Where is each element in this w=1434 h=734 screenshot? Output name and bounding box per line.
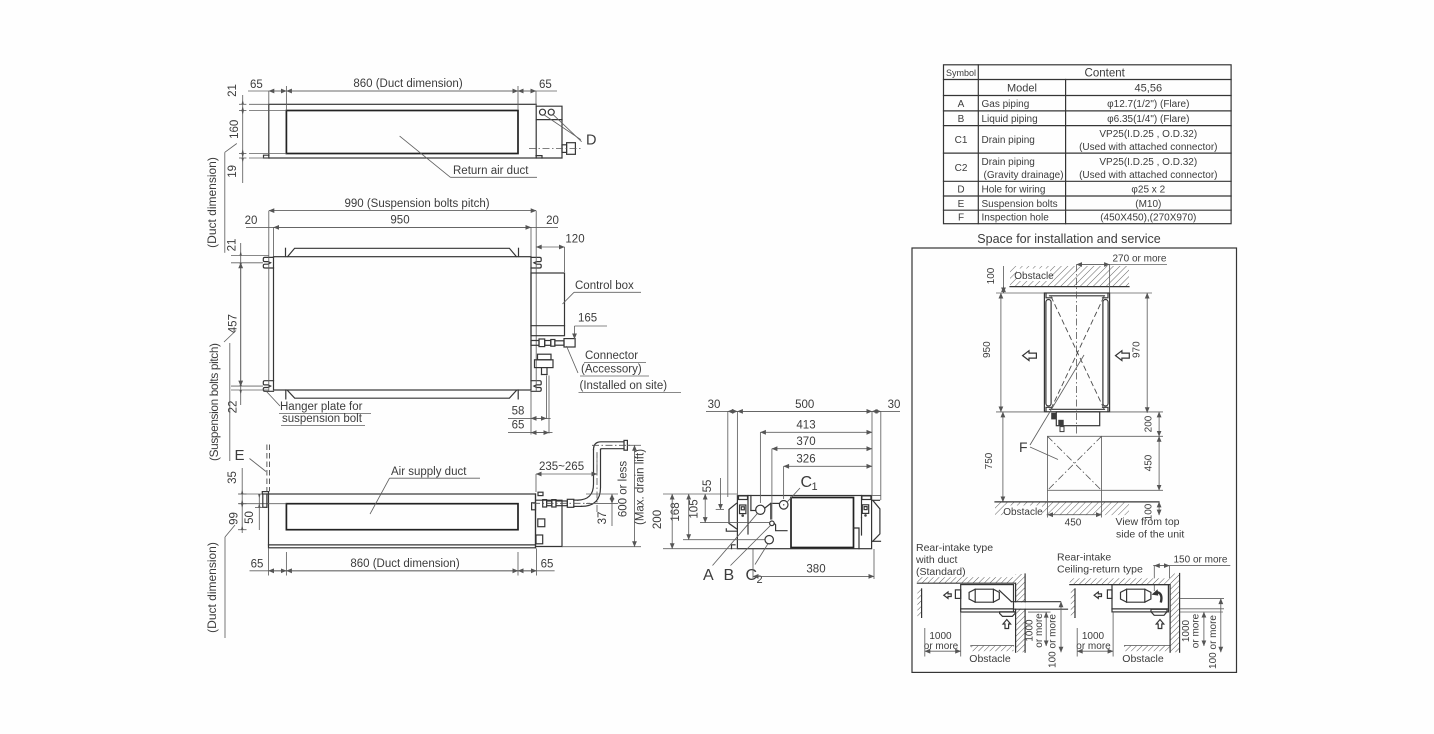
dim 270 or more [1077,264,1168,266]
svg-text:E: E [235,447,245,464]
top edge ext left [239,493,269,495]
duct hole through wall [1015,602,1026,608]
wall right mini [1170,574,1180,653]
svg-text:Suspension bolts: Suspension bolts [982,199,1058,210]
svg-text:side of the unit: side of the unit [1116,529,1184,541]
svg-text:30: 30 [708,399,721,411]
svg-text:500: 500 [795,399,814,411]
svg-text:Drain piping: Drain piping [982,157,1035,168]
control box [531,273,565,336]
svg-text:Model: Model [1007,83,1037,95]
unit box right mini [1112,585,1168,612]
corner hooks [1046,294,1052,298]
bottom inner lip line [269,544,536,546]
dim 450 right [1102,489,1164,491]
dims 58 / 65 bottom right [530,392,532,435]
svg-text:1: 1 [812,481,818,493]
duct top ext line [239,503,287,505]
svg-text:235~265: 235~265 [539,461,584,473]
svg-text:(M10): (M10) [1135,199,1161,210]
top edge ext left for dims [663,493,737,495]
fan box step bottom-right [854,528,860,549]
dim 750 left [996,501,1010,503]
svg-text:φ12.7(1/2") (Flare): φ12.7(1/2") (Flare) [1107,99,1189,110]
svg-text:65: 65 [541,559,554,571]
right bracket channel [861,496,863,518]
step below B [774,523,787,530]
right bracket plate [873,500,880,541]
svg-text:Inspection hole: Inspection hole [982,213,1050,224]
up arrow [1003,620,1011,629]
svg-text:or more: or more [1034,613,1045,648]
centerline through stub [529,147,581,149]
top obstacle hatch [1010,266,1129,287]
svg-text:65: 65 [539,79,552,91]
svg-text:990 (Suspension bolts pitch): 990 (Suspension bolts pitch) [344,198,489,210]
svg-text:VP25(I.D.25 , O.D.32): VP25(I.D.25 , O.D.32) [1099,157,1197,168]
foot right mini [1151,609,1167,615]
leader hanger plate [267,392,281,407]
svg-text:150 or more: 150 or more [1174,555,1228,566]
control box plan [1056,412,1099,426]
gas pipe A [756,505,765,514]
dim 950 [996,411,1044,413]
svg-text:B: B [724,567,735,584]
top flange line [288,248,517,256]
svg-text:Symbol: Symbol [946,68,976,78]
svg-text:457: 457 [228,314,240,333]
svg-text:200: 200 [652,510,664,529]
suspension bolt dashed [266,445,268,492]
ext 950 left [273,227,275,256]
svg-text:Space for installation and ser: Space for installation and service [977,232,1160,246]
air supply duct opening [286,504,518,530]
connector pipe assembly C1 [531,341,539,346]
svg-text:Hole for wiring: Hole for wiring [982,184,1046,195]
foot under unit [1000,612,1016,617]
svg-text:E: E [958,199,965,210]
svg-text:200: 200 [1144,415,1155,432]
return air duct opening [286,111,518,154]
duct lines through wall [1011,601,1060,603]
dim 600 or less [627,444,641,446]
ceiling hatch right mini [1070,578,1170,584]
svg-text:(Duct dimension): (Duct dimension) [205,157,219,248]
svg-text:or more: or more [1190,613,1201,648]
ticks for 21/160/19 [239,103,246,105]
dim 950 line [246,226,558,228]
svg-text:C: C [746,567,758,584]
svg-text:Obstacle: Obstacle [1003,507,1043,518]
hanger plate bottom-right [531,381,541,392]
svg-text:750: 750 [984,452,995,469]
discharge transition [999,590,1011,601]
right bolt square [862,505,868,514]
row lines [944,79,1232,81]
svg-text:Return air duct: Return air duct [453,165,529,177]
wall left mini [1016,574,1026,652]
svg-text:Air supply duct: Air supply duct [391,466,467,478]
panel border [912,248,1237,672]
dim 380 [752,549,754,579]
fan box [791,498,854,548]
left dims: 21 / 457 / 22 [231,255,269,257]
return curl [1156,592,1161,602]
ceiling hatch left mini [917,577,1025,583]
notch to C1 [765,503,771,508]
hanger plate top-left [263,257,273,268]
svg-text:58: 58 [512,406,525,418]
svg-text:(Installed on site): (Installed on site) [580,380,668,392]
ext verticals top [727,411,729,497]
right end box front [536,494,563,548]
leaders A B C2 C1 [713,513,758,565]
drain C1 [779,501,788,510]
svg-text:20: 20 [546,215,559,227]
bottom-left foot [732,545,736,549]
svg-text:65: 65 [512,420,525,432]
svg-text:950: 950 [982,341,993,358]
pipe centerline horizontal [533,502,590,504]
svg-text:Liquid piping: Liquid piping [982,114,1038,125]
svg-text:37: 37 [597,512,609,525]
svg-text:65: 65 [251,559,264,571]
svg-text:20: 20 [245,215,258,227]
hanger plate top-right [531,257,541,268]
intake flange right mini [1107,590,1112,599]
svg-text:860 (Duct dimension): 860 (Duct dimension) [353,78,462,90]
svg-text:Gas piping: Gas piping [982,99,1030,110]
svg-text:950: 950 [390,215,409,227]
unit body (front view) [269,494,536,548]
left wall strip [917,589,921,618]
svg-text:Rear-intake: Rear-intake [1057,552,1111,564]
hanger tab bottom-right (D box step) [536,156,542,158]
svg-text:65: 65 [250,79,263,91]
leader connector [567,346,579,373]
C2 drain assembly below [538,354,552,360]
svg-text:VP25(I.D.25 , O.D.32): VP25(I.D.25 , O.D.32) [1099,129,1197,140]
dim 165 [575,325,608,327]
svg-text:50: 50 [244,511,256,524]
svg-text:160: 160 [229,120,241,139]
left bracket channel [747,496,749,535]
riser top elbow [594,442,625,450]
svg-text:100 or more: 100 or more [1048,614,1059,668]
lower block front [536,535,543,544]
bottom flange line [288,391,517,399]
airflow arrow right [1116,351,1130,361]
unit body (top view) [269,104,536,158]
svg-text:45,56: 45,56 [1135,83,1163,95]
svg-text:A: A [958,99,965,110]
wiring hole circle 1 [540,109,546,115]
svg-text:380: 380 [806,564,825,576]
dim 860 top line [248,90,557,92]
svg-text:370: 370 [796,436,815,448]
svg-text:105: 105 [689,499,701,518]
svg-text:(Used with attached connector): (Used with attached connector) [1079,142,1217,153]
bottom dims 65 / 860 / 65 [268,549,270,576]
svg-text:413: 413 [796,420,815,432]
svg-text:2: 2 [757,574,763,586]
ext verticals for 860 dim [268,91,270,104]
svg-text:or more: or more [924,641,959,652]
pipe horizontal to elbow [574,499,578,501]
svg-text:Content: Content [1085,68,1126,80]
bottom obstacle left mini [971,645,1014,647]
unit body (plan view) [274,257,532,390]
drain pipe assembly [543,500,547,507]
svg-text:450: 450 [1065,518,1082,529]
arrowheads 21/22 mid view [240,251,242,395]
svg-text:C2: C2 [955,163,968,174]
svg-text:with duct: with duct [915,554,958,566]
dashed X in unit [1051,297,1104,409]
left arrow right mini [1094,592,1101,598]
small block on face [532,503,536,510]
svg-text:970: 970 [1132,341,1143,358]
svg-text:(Duct dimension): (Duct dimension) [205,542,219,633]
left ext lines [249,103,269,105]
svg-text:Hanger plate for: Hanger plate for [280,401,363,413]
dim 450 bottom [1047,490,1049,517]
dim 370 [772,448,872,450]
svg-text:A: A [703,567,714,584]
svg-text:(Max. drain lift): (Max. drain lift) [635,449,647,525]
svg-text:450: 450 [1144,454,1155,471]
svg-text:Control box: Control box [575,280,634,292]
hanger plate bottom-left [263,381,273,392]
svg-text:C: C [801,474,813,491]
svg-text:100: 100 [986,267,997,284]
hanger tab bottom-left [264,155,270,158]
bottom obstacle right mini [1125,645,1170,647]
D box right [536,106,562,158]
svg-text:Obstacle: Obstacle [969,653,1011,665]
riser end cap [624,440,627,450]
control box lid line [531,325,565,327]
connector stub right of D box [562,145,567,153]
svg-text:600 or less: 600 or less [618,461,630,518]
svg-text:326: 326 [796,454,815,466]
svg-text:View from top: View from top [1116,516,1180,528]
col divider 1 [977,65,979,224]
svg-text:21: 21 [227,239,239,252]
svg-text:Ceiling-return type: Ceiling-return type [1057,564,1143,576]
svg-text:φ25 x 2: φ25 x 2 [1131,184,1165,195]
leader 457 [224,331,236,343]
drain C2 [765,536,773,544]
svg-text:860 (Duct dimension): 860 (Duct dimension) [350,558,459,570]
left arrow [944,592,951,598]
left dims 35 / 99 / 50 [241,468,243,533]
svg-text:120: 120 [565,234,584,246]
left bolt square [740,505,746,514]
svg-text:Rear-intake type: Rear-intake type [916,542,993,554]
svg-text:or more: or more [1076,641,1111,652]
svg-text:suspension bolt: suspension bolt [282,413,363,425]
dim 100 bottom right [1158,502,1160,515]
unit body (side/end view) [737,496,871,549]
left wall strip right mini [1071,589,1075,618]
leader D line 2 [552,114,581,142]
svg-text:(450X450),(270X970): (450X450),(270X970) [1100,213,1196,224]
left hanger plate front [262,492,268,494]
dim 990 line [269,210,536,212]
bottom obstacle hatch [995,502,1129,515]
leader Return air duct [400,136,451,177]
bottom edge ext left [663,548,737,550]
dim line top 30/500/30 [706,410,900,412]
dim 326 [784,465,872,467]
left bracket plate [729,503,737,529]
svg-text:55: 55 [702,480,714,493]
top tab right [538,492,543,495]
unit rect plan [1044,293,1109,412]
intake flange [955,590,960,599]
svg-text:270 or more: 270 or more [1113,254,1167,265]
svg-text:(Suspension bolts pitch): (Suspension bolts pitch) [207,343,221,461]
side flange lines [1046,300,1051,407]
col divider 2 [1065,80,1067,224]
svg-text:30: 30 [888,399,901,411]
dim 150 or more [1153,565,1230,567]
liquid pipe B [770,521,775,526]
svg-text:F: F [1019,439,1028,455]
dim 235~265 [536,473,597,475]
svg-text:Obstacle: Obstacle [1122,653,1164,665]
up arrow right mini [1156,620,1164,629]
left dim vertical line [242,95,244,183]
svg-text:Connector: Connector [585,350,638,362]
dim 120 line [536,246,564,248]
C2 stub front [538,519,545,527]
ext 950 right [530,227,532,256]
capsule right mini [1121,589,1151,602]
svg-text:D: D [957,184,964,195]
svg-text:Drain piping: Drain piping [982,135,1035,146]
svg-text:D: D [586,133,596,149]
svg-text:φ6.35(1/4") (Flare): φ6.35(1/4") (Flare) [1107,114,1189,125]
dim 200 right [1110,411,1163,413]
svg-text:(Used with attached connector): (Used with attached connector) [1079,170,1217,181]
pipe panel notch [750,496,752,511]
arrowheads left dims front view [241,490,261,530]
drain riser elbow and pipe [578,450,594,501]
svg-text:(Accessory): (Accessory) [581,364,642,376]
svg-text:165: 165 [578,313,597,325]
drain fittings dark [1051,413,1056,420]
svg-text:19: 19 [227,165,239,178]
unit box left mini [961,585,1014,612]
leader D line 1 [543,114,581,139]
svg-text:C1: C1 [955,135,968,146]
svg-text:F: F [958,213,964,224]
wiring hole circle 2 [548,109,554,115]
dim 413 [760,431,872,433]
svg-text:99: 99 [229,512,241,525]
right ref lines [1180,598,1224,600]
svg-text:(Standard): (Standard) [916,566,966,578]
airflow arrow left [1023,351,1037,361]
arrowheads left dims top view [242,100,244,163]
svg-text:Obstacle: Obstacle [1014,271,1054,282]
dim 37 [586,493,618,495]
dim 100 top left [1003,266,1005,293]
svg-text:100 or more: 100 or more [1208,615,1219,669]
svg-text:22: 22 [228,401,240,414]
table frame [944,65,1232,224]
svg-text:21: 21 [227,84,239,97]
svg-text:(Gravity drainage): (Gravity drainage) [984,170,1064,181]
dim 970 [1110,292,1152,294]
capsule body [969,589,999,602]
centerline vertical [1076,265,1078,435]
D box circle area bottom line [536,119,562,121]
left dims 55/105/168/200 [716,508,724,510]
F inspection square [1048,436,1102,490]
riser centerline [596,453,598,512]
svg-text:35: 35 [227,471,239,484]
svg-text:B: B [958,114,965,125]
bolt extension line left [268,211,270,391]
bolt extension line right [535,211,537,391]
